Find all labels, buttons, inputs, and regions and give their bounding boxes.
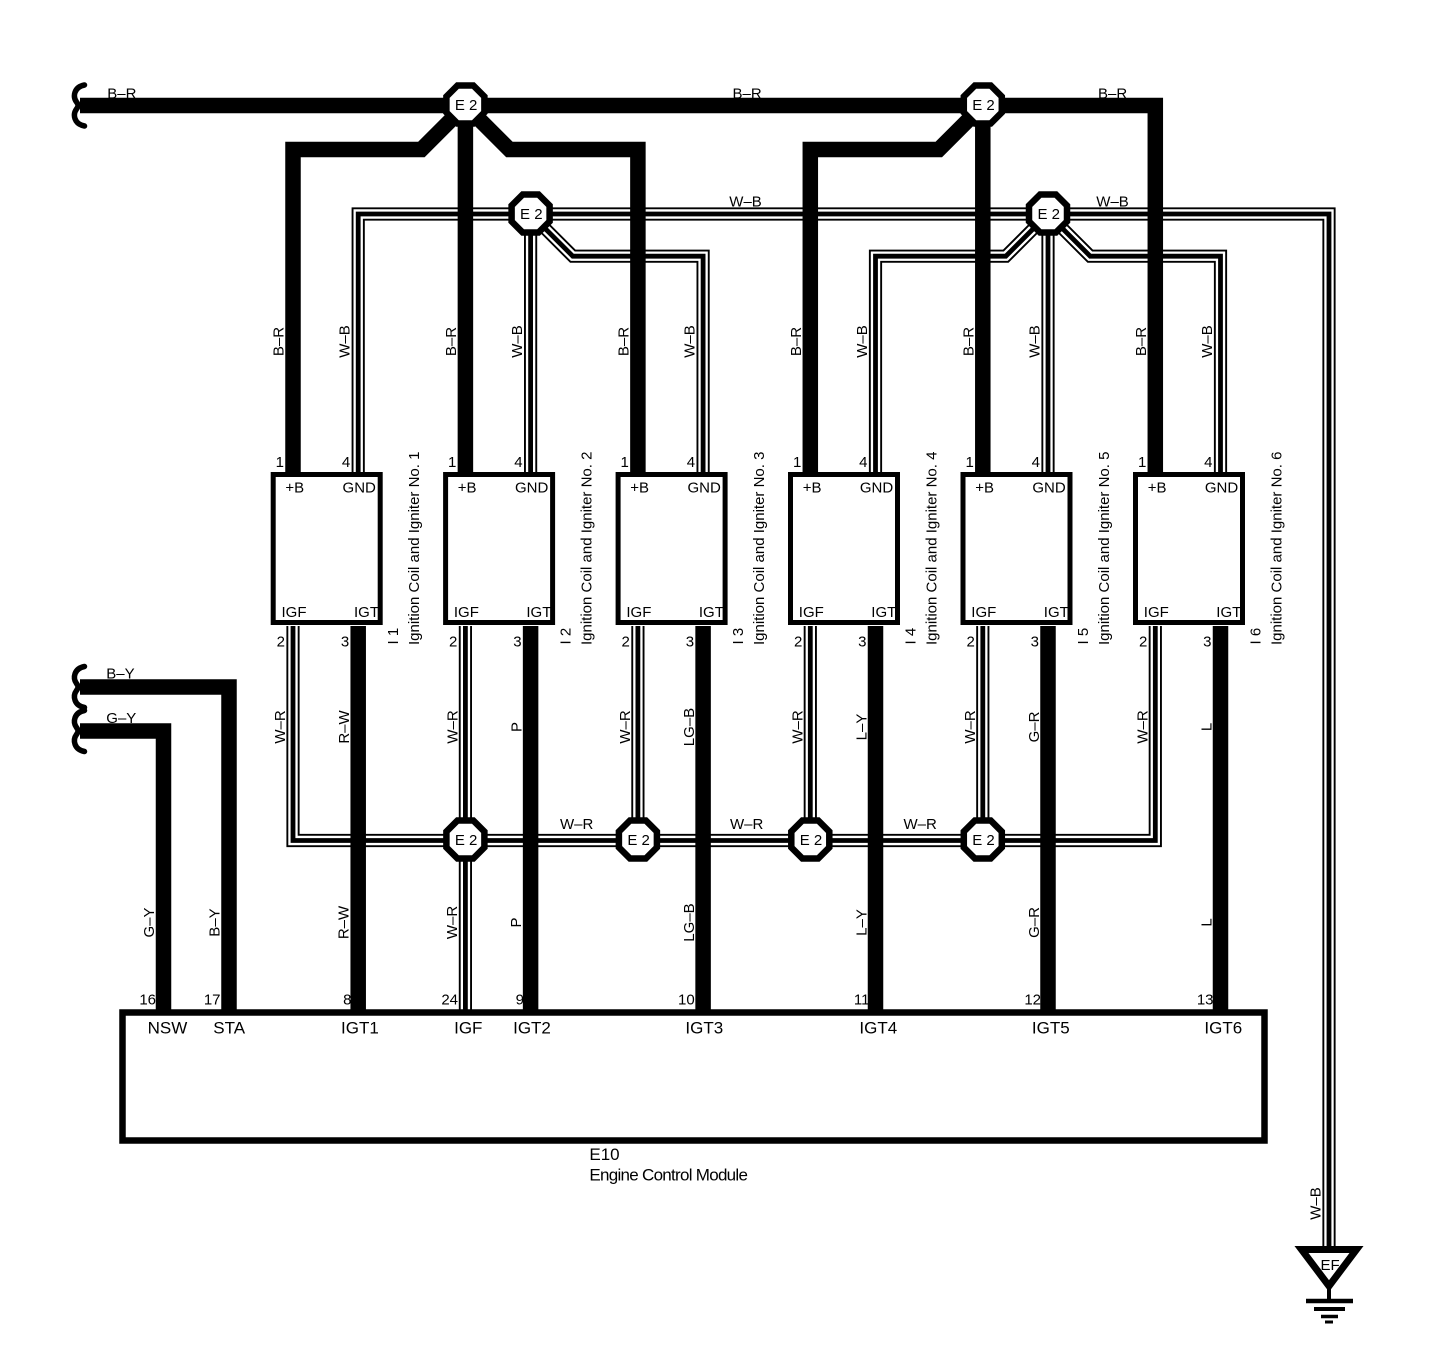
wire W-B from splice E2 diagonal to igniter I6 GND pin 4 (1048, 214, 1221, 474)
svg-text:P: P (508, 917, 525, 927)
svg-text:E 2: E 2 (520, 206, 543, 223)
svg-text:W–R: W–R (617, 710, 634, 744)
svg-text:B–R: B–R (733, 85, 762, 102)
svg-text:Ignition Coil and Igniter No.: Ignition Coil and Igniter No. 5 (1096, 452, 1113, 645)
svg-text:3: 3 (1203, 634, 1211, 651)
svg-text:B–R: B–R (271, 327, 288, 356)
connector break (G-Y wire) (74, 711, 84, 752)
igniter I2 box: Ignition Coil and Igniter No. 2 (446, 475, 553, 623)
svg-text:GND: GND (1205, 480, 1239, 497)
svg-text:IGT: IGT (354, 604, 379, 621)
ECM pin 11 IGT4 (854, 992, 897, 1038)
wire W-B from splice E2 diagonal to igniter I3 GND pin 4 (531, 214, 704, 474)
svg-text:B–R: B–R (1133, 327, 1150, 356)
svg-text:IGT4: IGT4 (859, 1019, 897, 1038)
svg-text:4: 4 (342, 454, 350, 471)
svg-text:+B: +B (975, 480, 994, 497)
svg-text:+B: +B (630, 480, 649, 497)
svg-text:13: 13 (1197, 992, 1214, 1009)
ECM pin 12 IGT5 (1024, 992, 1069, 1038)
svg-text:IGF: IGF (799, 604, 824, 621)
svg-text:W–B: W–B (682, 325, 699, 358)
wire LG-B igniter I3 IGT pin 3 down to ECM IGT3 (695, 626, 711, 1012)
svg-text:B–Y: B–Y (106, 666, 134, 683)
svg-text:G–R: G–R (1026, 711, 1043, 742)
svg-text:L: L (1199, 723, 1216, 731)
svg-text:10: 10 (678, 992, 695, 1009)
splice E2 on W-R bus under igniter I5 (964, 821, 1002, 859)
splice E2 on B-R line (right) (964, 86, 1002, 124)
svg-text:E 2: E 2 (1037, 206, 1060, 223)
svg-text:I 6: I 6 (1248, 628, 1265, 645)
svg-text:+B: +B (803, 480, 822, 497)
svg-text:G–Y: G–Y (106, 710, 136, 727)
svg-text:R–W: R–W (336, 905, 353, 939)
wire L-Y igniter I4 IGT pin 3 down to ECM IGT4 (868, 626, 884, 1012)
svg-text:I 1: I 1 (385, 628, 402, 645)
svg-text:B–R: B–R (1098, 85, 1127, 102)
splice E2 on W-R bus under igniter I3 (619, 821, 657, 859)
svg-text:IGT: IGT (699, 604, 724, 621)
svg-text:2: 2 (622, 634, 630, 651)
wire R-W igniter I1 IGT pin 3 down to ECM IGT1 (350, 626, 366, 1012)
svg-text:GND: GND (860, 480, 894, 497)
svg-text:W–R: W–R (444, 906, 461, 940)
svg-text:STA: STA (213, 1019, 245, 1038)
svg-text:B–R: B–R (107, 85, 136, 102)
wire B-R from splice E2 down to igniter I2 +B pin 1 (458, 106, 474, 475)
svg-text:P: P (509, 722, 526, 732)
wire W-B from splice E2 down to igniter I2 GND pin 4 (530, 214, 532, 474)
svg-text:2: 2 (449, 634, 457, 651)
wire W-R igniter I3 IGF pin 2 down to splice E2 (637, 626, 639, 841)
connector break to ignition switch (B-R wire) (74, 85, 84, 126)
igniter I4 box: Ignition Coil and Igniter No. 4 (791, 475, 898, 623)
svg-text:G–R: G–R (1026, 907, 1043, 938)
svg-text:E 2: E 2 (455, 832, 478, 849)
svg-text:2: 2 (1139, 634, 1147, 651)
svg-text:W–B: W–B (337, 325, 354, 358)
svg-text:IGT: IGT (871, 604, 896, 621)
svg-text:11: 11 (854, 992, 870, 1009)
wire B-R from splice E2 diagonal to igniter I4 +B pin 1 (810, 106, 983, 475)
splice E2 on W-B line (left) (512, 195, 550, 233)
svg-text:IGT: IGT (1044, 604, 1069, 621)
svg-text:IGT1: IGT1 (341, 1019, 379, 1038)
svg-text:12: 12 (1024, 992, 1041, 1009)
svg-text:4: 4 (1204, 454, 1212, 471)
ECM label E10 Engine Control Module (589, 1145, 747, 1185)
svg-text:W–R: W–R (1134, 710, 1151, 744)
wire G-Y from connector to ECM pin 16 NSW (80, 731, 164, 1012)
svg-text:4: 4 (687, 454, 695, 471)
splice E2 on W-R bus under igniter I4 (791, 821, 829, 859)
wire B-R from splice E2 down to igniter I5 +B pin 1 (975, 106, 991, 475)
wire W-R igniter I5 IGF pin 2 down to splice E2 (982, 626, 984, 841)
svg-text:LG–B: LG–B (681, 903, 698, 941)
ECM pin 16 NSW (139, 992, 187, 1038)
wire B-R from splice E2 diagonal to igniter I1 +B pin 1 (293, 106, 465, 475)
svg-text:4: 4 (1032, 454, 1040, 471)
wire G-R igniter I5 IGT pin 3 down to ECM IGT5 (1040, 626, 1056, 1012)
svg-text:NSW: NSW (148, 1019, 188, 1038)
svg-text:L–Y: L–Y (854, 909, 871, 936)
svg-text:17: 17 (204, 992, 221, 1009)
svg-text:E 2: E 2 (627, 832, 650, 849)
wire W-B bus: box1 GND up, across, down right side to ground EF (358, 214, 1329, 1252)
svg-text:GND: GND (1032, 480, 1066, 497)
svg-text:B–R: B–R (615, 327, 632, 356)
svg-text:4: 4 (859, 454, 867, 471)
svg-text:1: 1 (276, 454, 284, 471)
ECM pin 17 STA (204, 992, 246, 1038)
wire B-Y from connector to ECM pin 17 STA (80, 687, 229, 1012)
svg-text:16: 16 (139, 992, 156, 1009)
splice E2 on B-R line (left) (446, 86, 484, 124)
svg-text:IGT6: IGT6 (1204, 1019, 1242, 1038)
svg-text:W–B: W–B (1096, 194, 1129, 211)
svg-text:B–R: B–R (443, 327, 460, 356)
wire W-B from splice E2 diagonal to igniter I4 GND pin 4 (876, 214, 1049, 474)
svg-text:1: 1 (448, 454, 456, 471)
svg-text:I 2: I 2 (558, 628, 575, 645)
wire B-R from splice E2 diagonal to igniter I3 +B pin 1 (465, 106, 638, 475)
svg-text:IGF: IGF (454, 1019, 482, 1038)
svg-text:4: 4 (514, 454, 522, 471)
svg-text:1: 1 (793, 454, 801, 471)
svg-text:EF: EF (1321, 1257, 1340, 1274)
wire P igniter I2 IGT pin 3 down to ECM IGT2 (523, 626, 539, 1012)
svg-text:IGF: IGF (1144, 604, 1169, 621)
ECM E10 box: Engine Control Module (123, 1013, 1265, 1141)
wire L igniter I6 IGT pin 3 down to ECM IGT6 (1213, 626, 1229, 1012)
svg-text:W–B: W–B (1199, 325, 1216, 358)
svg-text:1: 1 (965, 454, 973, 471)
svg-text:E 2: E 2 (972, 832, 995, 849)
svg-text:Ignition Coil and Igniter No.: Ignition Coil and Igniter No. 3 (751, 452, 768, 645)
svg-text:W–R: W–R (789, 710, 806, 744)
wire W-R igniter I4 IGF pin 2 down to splice E2 (809, 626, 811, 841)
svg-text:GND: GND (343, 480, 377, 497)
svg-text:IGT: IGT (1216, 604, 1241, 621)
svg-text:R–W: R–W (336, 709, 353, 743)
svg-text:E 2: E 2 (800, 832, 823, 849)
svg-text:IGF: IGF (626, 604, 651, 621)
svg-text:W–R: W–R (444, 710, 461, 744)
ground EF symbol (1302, 1250, 1357, 1323)
svg-text:Engine Control Module: Engine Control Module (589, 1166, 747, 1185)
igniter I1 box: Ignition Coil and Igniter No. 1 (273, 475, 380, 623)
svg-text:W–B: W–B (854, 325, 871, 358)
svg-text:Ignition Coil and Igniter No.: Ignition Coil and Igniter No. 6 (1269, 452, 1286, 645)
svg-text:9: 9 (516, 992, 524, 1009)
svg-text:1: 1 (621, 454, 629, 471)
svg-text:I 3: I 3 (730, 628, 747, 645)
svg-text:Ignition Coil and Igniter No.: Ignition Coil and Igniter No. 4 (924, 452, 941, 645)
svg-text:IGT5: IGT5 (1032, 1019, 1070, 1038)
svg-text:W–B: W–B (509, 325, 526, 358)
svg-text:2: 2 (277, 634, 285, 651)
svg-text:3: 3 (858, 634, 866, 651)
wire B-R main: from connector across top, down to igniter I6 +B pin 1 (80, 106, 1155, 475)
svg-text:24: 24 (441, 992, 458, 1009)
svg-text:B–Y: B–Y (207, 908, 224, 936)
svg-text:IGF: IGF (454, 604, 479, 621)
svg-text:Ignition Coil and Igniter No.: Ignition Coil and Igniter No. 1 (406, 452, 423, 645)
svg-text:L: L (1198, 918, 1215, 926)
svg-text:LG–B: LG–B (681, 708, 698, 746)
svg-text:L–Y: L–Y (854, 714, 871, 741)
svg-text:2: 2 (966, 634, 974, 651)
wire W-R bus: igniter I1 IGF pin 2 down, across, up to igniter I6 IGF pin 2 (293, 626, 1155, 841)
svg-text:W–B: W–B (1308, 1187, 1325, 1220)
ECM pin 8 IGT1 (341, 992, 379, 1038)
svg-text:2: 2 (794, 634, 802, 651)
wire W-R igniter I2 IGF pin 2 down through splice E2 to ECM pin 24 IGF (464, 626, 466, 1012)
igniter I6 box: Ignition Coil and Igniter No. 6 (1136, 475, 1243, 623)
svg-text:IGT: IGT (526, 604, 551, 621)
svg-text:G–Y: G–Y (141, 907, 158, 937)
svg-text:3: 3 (513, 634, 521, 651)
svg-text:E10: E10 (589, 1145, 619, 1164)
svg-text:W–R: W–R (904, 816, 938, 833)
connector break (B-Y wire) (74, 667, 84, 708)
svg-text:E 2: E 2 (972, 97, 995, 114)
svg-text:3: 3 (1031, 634, 1039, 651)
svg-text:I 5: I 5 (1075, 628, 1092, 645)
svg-text:IGF: IGF (282, 604, 307, 621)
svg-text:E 2: E 2 (455, 97, 478, 114)
splice E2 on W-B line (right) (1029, 195, 1067, 233)
svg-text:1: 1 (1138, 454, 1146, 471)
svg-text:W–R: W–R (272, 710, 289, 744)
svg-text:B–R: B–R (960, 327, 977, 356)
svg-text:8: 8 (343, 992, 351, 1009)
ECM pin 9 IGT2 (513, 992, 551, 1038)
svg-text:GND: GND (687, 480, 721, 497)
svg-text:+B: +B (1148, 480, 1167, 497)
svg-text:+B: +B (458, 480, 477, 497)
svg-text:B–R: B–R (788, 327, 805, 356)
ECM pin 10 IGT3 (678, 992, 723, 1038)
svg-text:W–R: W–R (730, 816, 764, 833)
svg-text:W–R: W–R (962, 710, 979, 744)
svg-text:IGF: IGF (971, 604, 996, 621)
svg-text:IGT2: IGT2 (513, 1019, 551, 1038)
igniter I3 box: Ignition Coil and Igniter No. 3 (618, 475, 725, 623)
ECM pin 24 IGF (441, 992, 482, 1038)
svg-text:+B: +B (285, 480, 304, 497)
igniter I5 box: Ignition Coil and Igniter No. 5 (963, 475, 1070, 623)
svg-text:3: 3 (686, 634, 694, 651)
svg-text:GND: GND (515, 480, 549, 497)
splice E2 on W-R bus under igniter I2 (446, 821, 484, 859)
svg-text:W–B: W–B (729, 194, 762, 211)
svg-text:3: 3 (341, 634, 349, 651)
svg-text:I 4: I 4 (903, 628, 920, 645)
ECM pin 13 IGT6 (1197, 992, 1242, 1038)
svg-text:Ignition Coil and Igniter No.: Ignition Coil and Igniter No. 2 (579, 452, 596, 645)
svg-text:IGT3: IGT3 (685, 1019, 723, 1038)
svg-text:W–R: W–R (560, 816, 594, 833)
svg-text:W–B: W–B (1027, 325, 1044, 358)
wire W-B from splice E2 down to igniter I5 GND pin 4 (1047, 214, 1049, 474)
